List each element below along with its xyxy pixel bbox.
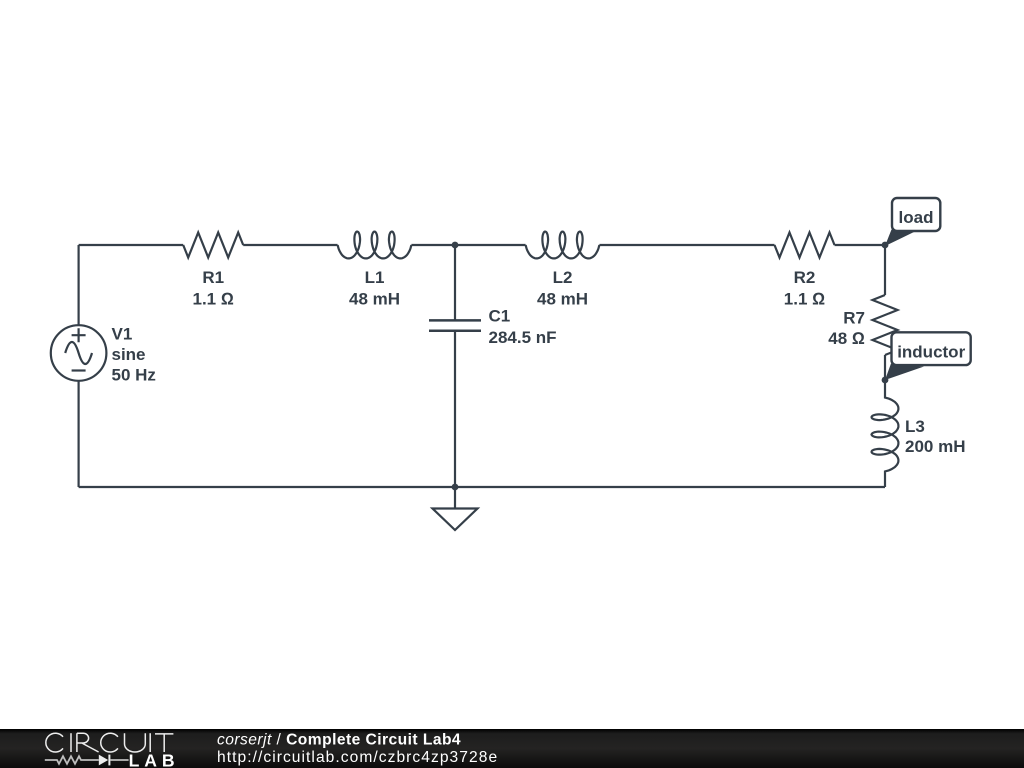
wire node load to R7 (884, 245, 886, 295)
node inductor junction dot (882, 377, 889, 384)
inductor L2 (526, 232, 600, 259)
svg-text:corserjt / Complete Circuit La: corserjt / Complete Circuit Lab4 (217, 732, 461, 749)
inductor L3 (872, 380, 899, 487)
wire top-left horizontal (79, 244, 184, 246)
svg-text:1.1 Ω: 1.1 Ω (192, 289, 233, 308)
node inductor callout flag (885, 332, 971, 380)
logo resistor-diode circuit line (45, 756, 129, 764)
svg-text:R1: R1 (202, 268, 224, 287)
svg-text:L3: L3 (905, 417, 925, 436)
svg-text:48 Ω: 48 Ω (828, 329, 865, 348)
svg-text:50 Hz: 50 Hz (112, 366, 156, 385)
svg-text:R7: R7 (843, 308, 865, 327)
svg-text:R2: R2 (794, 268, 816, 287)
svg-text:284.5 nF: 284.5 nF (489, 328, 557, 347)
wire left rail upper (77, 245, 79, 325)
svg-text:LAB: LAB (129, 751, 180, 768)
ground node junction dot (452, 484, 459, 491)
resistor R7 (873, 295, 898, 355)
wire L2 to R2 (599, 244, 774, 246)
resistor R2 (775, 233, 835, 258)
node load junction dot (882, 242, 889, 249)
svg-text:sine: sine (112, 345, 146, 364)
wire left rail lower (77, 381, 79, 487)
ground (433, 487, 478, 530)
svg-text:200 mH: 200 mH (905, 437, 965, 456)
wire R2 to node load (835, 244, 886, 246)
footer bar (0, 729, 1024, 768)
svg-text:1.1 Ω: 1.1 Ω (784, 289, 825, 308)
svg-text:L1: L1 (365, 268, 385, 287)
wire C1 to bottom node (454, 331, 456, 487)
wire node A down to C1 (454, 245, 456, 320)
svg-text:C1: C1 (489, 307, 511, 326)
svg-text:48 mH: 48 mH (349, 289, 400, 308)
wire bottom rail (79, 486, 885, 488)
node A junction dot (452, 242, 459, 249)
capacitor C1 (429, 320, 481, 330)
wire node A to L2 (455, 244, 526, 246)
wire L1 to node A (411, 244, 455, 246)
svg-text:inductor: inductor (897, 342, 965, 361)
svg-text:L2: L2 (553, 268, 573, 287)
resistor R1 (183, 233, 243, 258)
node load callout flag (885, 198, 940, 246)
wire R1 to L1 (243, 244, 337, 246)
svg-text:V1: V1 (112, 325, 133, 344)
svg-text:48 mH: 48 mH (537, 289, 588, 308)
svg-text:load: load (899, 208, 934, 227)
CircuitLab logo wordmark CIRCUIT (46, 733, 174, 752)
inductor L1 (338, 232, 412, 259)
footer title text (217, 732, 498, 766)
voltage source V1 (51, 325, 107, 381)
wire R7 to node inductor (884, 355, 886, 380)
svg-text:http://circuitlab.com/czbrc4zp: http://circuitlab.com/czbrc4zp3728e (217, 749, 498, 766)
